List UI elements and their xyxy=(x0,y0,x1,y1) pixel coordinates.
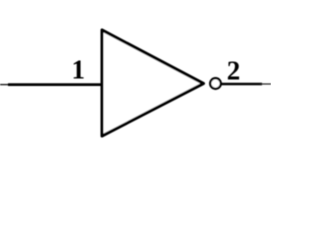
svg-text:1: 1 xyxy=(72,55,86,85)
inversion bubble xyxy=(210,78,221,89)
wire: input lead (thin end segment at left edge) xyxy=(0,84,12,86)
svg-text:2: 2 xyxy=(227,56,241,86)
wire: input lead to gate xyxy=(8,83,102,86)
wire: output lead (thin end segment at right edge) xyxy=(260,83,271,85)
wire: output lead from bubble xyxy=(222,83,263,86)
inverter gate U1 triangle xyxy=(102,30,204,136)
